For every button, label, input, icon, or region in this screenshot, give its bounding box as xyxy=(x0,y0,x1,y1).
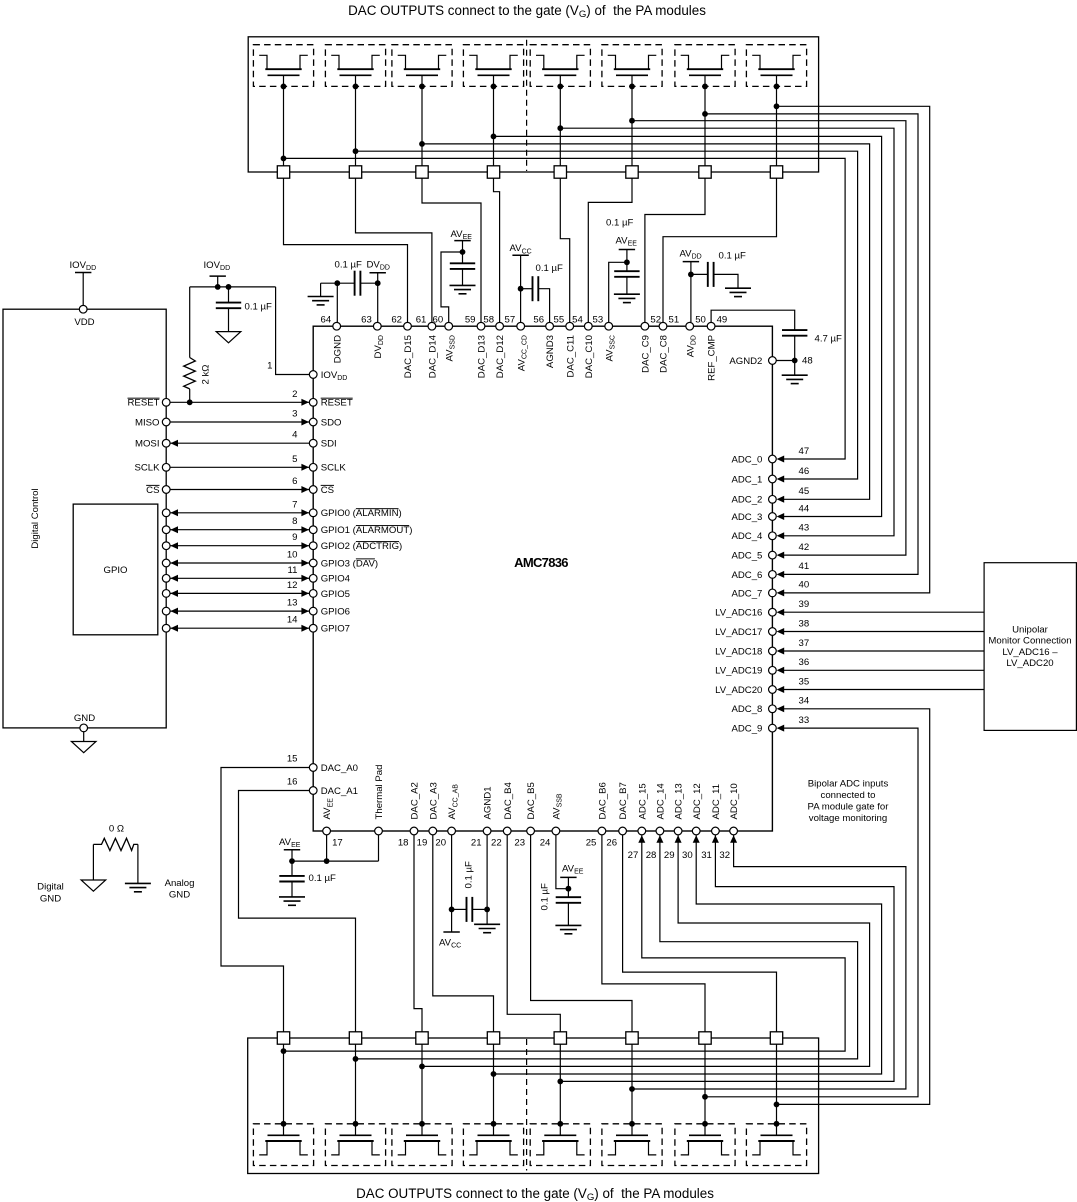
bottom assembly divider dashed xyxy=(526,1039,528,1171)
svg-text:25: 25 xyxy=(586,838,597,849)
terminal square T1 (top) xyxy=(277,166,289,178)
svg-text:ADC_1: ADC_1 xyxy=(731,474,762,485)
junction B8 monitor tap xyxy=(774,1102,780,1108)
junction AVEE pin24 xyxy=(566,886,572,892)
junction at M3 box edge xyxy=(419,84,425,90)
svg-text:29: 29 xyxy=(664,850,675,861)
wire terminal B3 to gate xyxy=(421,1044,423,1135)
svg-text:LV_ADC19: LV_ADC19 xyxy=(715,666,762,677)
wire DAC_D13 pin to terminal T3 xyxy=(422,178,481,322)
svg-text:9: 9 xyxy=(292,532,297,543)
resistor R1 2k xyxy=(184,358,196,389)
pin 57 AV (top edge) xyxy=(517,322,525,330)
svg-text:ADC_2: ADC_2 xyxy=(731,495,762,506)
pin 16 DAC_A1 (left edge) xyxy=(309,787,317,795)
junction at M2 box edge xyxy=(353,84,359,90)
wire DAC_A0 pin15 to terminal B1 xyxy=(221,768,309,1032)
Unipolar Monitor Connection box xyxy=(984,563,1076,731)
wire M6 gate monitor to ADC_5 xyxy=(632,121,906,555)
svg-text:ADC_12: ADC_12 xyxy=(692,783,703,819)
pin 32 ADC_10 (bottom edge) xyxy=(730,827,738,835)
wire DAC_A1 pin16 to terminal B2 xyxy=(239,791,356,1032)
svg-text:54: 54 xyxy=(572,314,583,325)
capacitor C8 0.1uF (AVEE) xyxy=(279,875,304,877)
wire gate M3 to terminal xyxy=(421,75,423,166)
svg-text:2: 2 xyxy=(292,389,297,400)
capacitor C3 0.1uF (AVCC-AGND3) xyxy=(521,288,533,290)
svg-text:CS: CS xyxy=(321,485,334,496)
pin 58 DAC_D12 (top edge) xyxy=(496,322,504,330)
svg-text:19: 19 xyxy=(417,838,428,849)
svg-text:DAC_B7: DAC_B7 xyxy=(618,782,629,819)
wire DAC_C11 pin to terminal T5 xyxy=(560,178,569,322)
pin 21 AGND1 (bottom edge) xyxy=(483,827,491,835)
transistor Q5 (top) xyxy=(536,55,544,69)
PA module M2 (bottom) dashed box xyxy=(325,1124,385,1166)
svg-text:ADC_5: ADC_5 xyxy=(731,551,762,562)
junction M4 monitor tap xyxy=(491,134,497,140)
terminal square B1 (bottom) xyxy=(277,1032,289,1044)
transistor Q9 (bottom) xyxy=(268,1134,300,1136)
transistor Q2 (top) xyxy=(331,55,339,69)
svg-text:LV_ADC18: LV_ADC18 xyxy=(715,646,762,657)
terminal GPIO1 xyxy=(162,526,170,534)
ground C8 xyxy=(279,896,305,898)
pin 39 LV_ADC16 (right edge) xyxy=(769,608,777,616)
svg-text:GND: GND xyxy=(74,713,95,724)
svg-text:AMC7836: AMC7836 xyxy=(514,555,568,570)
wire M7 gate monitor to ADC_6 xyxy=(705,114,918,575)
PA module M3 (top) dashed box xyxy=(392,45,452,87)
wire M4 gate monitor to ADC_3 xyxy=(494,136,882,516)
terminal GPIO2 xyxy=(162,542,170,550)
wire terminal B6 to gate xyxy=(631,1044,633,1135)
svg-text:SCLK: SCLK xyxy=(134,463,160,474)
junction rail-left xyxy=(215,284,221,290)
capacitor C4 0.1uF (AVEE pin53) xyxy=(614,270,639,272)
wire ADC pin 27 monitor to M1 (bottom) xyxy=(284,835,846,1051)
transistor Q7 (top) xyxy=(681,55,689,69)
terminal RESET xyxy=(162,398,170,406)
svg-text:55: 55 xyxy=(554,314,565,325)
svg-text:ADC_13: ADC_13 xyxy=(674,783,685,819)
svg-text:LV_ADC16: LV_ADC16 xyxy=(715,608,762,619)
pin 61 DAC_D14 (top edge) xyxy=(428,322,436,330)
svg-text:RESET: RESET xyxy=(128,398,160,409)
wire MOSI xyxy=(170,442,309,444)
pin 5 SCLK (left edge) xyxy=(309,463,317,471)
svg-text:13: 13 xyxy=(287,598,298,609)
svg-text:DAC OUTPUTS connect to the gat: DAC OUTPUTS connect to the gate (VG) of … xyxy=(348,3,706,20)
svg-text:Thermal Pad: Thermal Pad xyxy=(374,765,385,820)
wire terminal B5 to gate xyxy=(559,1044,561,1135)
pin 52 DAC_C9 (top edge) xyxy=(641,322,649,330)
svg-text:3: 3 xyxy=(292,409,297,420)
transistor Q14 (bottom) xyxy=(616,1134,648,1136)
ground AGND2 xyxy=(782,374,808,376)
junction M2 monitor tap xyxy=(353,148,359,154)
pin 17 AV (bottom edge) xyxy=(323,827,331,835)
svg-text:LV_ADC20: LV_ADC20 xyxy=(715,685,762,696)
wire DAC_D14 pin to terminal T2 xyxy=(356,178,432,322)
pin 24 AV (bottom edge) xyxy=(552,827,560,835)
junction B6 box edge xyxy=(629,1121,635,1127)
pin 20 AV (bottom edge) xyxy=(448,827,456,835)
svg-text:30: 30 xyxy=(682,850,693,861)
pin 10 GPIO3 ( (left edge) xyxy=(309,559,317,567)
junction M1 monitor tap xyxy=(281,156,287,162)
terminal square T2 (top) xyxy=(349,166,361,178)
svg-text:39: 39 xyxy=(799,599,810,610)
terminal square B5 (bottom) xyxy=(554,1032,566,1044)
pin 46 ADC_1 (right edge) xyxy=(769,475,777,483)
pin 25 DAC_B6 (bottom edge) xyxy=(598,827,606,835)
terminal square T7 (top) xyxy=(699,166,711,178)
pin 36 LV_ADC19 (right edge) xyxy=(769,666,777,674)
wire R2 left lead xyxy=(92,844,94,880)
junction B7 box edge xyxy=(702,1121,708,1127)
svg-text:DAC_C9: DAC_C9 xyxy=(641,335,652,373)
pin 23 DAC_B5 (bottom edge) xyxy=(527,827,535,835)
wire gate M8 to terminal xyxy=(776,75,778,166)
wire terminal B1 to gate xyxy=(283,1044,285,1135)
pin 33 ADC_9 (right edge) xyxy=(769,724,777,732)
wire DAC_C8 pin to terminal T8 xyxy=(663,178,777,322)
svg-text:DAC_D13: DAC_D13 xyxy=(477,335,488,378)
wire SCLK xyxy=(170,466,309,468)
ground C10 xyxy=(555,924,581,926)
capacitor C9 0.1uF (AVCC_AB-AGND1) xyxy=(452,908,467,910)
svg-text:11: 11 xyxy=(288,565,298,576)
wire LV_ADC18 from monitor box xyxy=(779,650,985,652)
junction B5 monitor tap xyxy=(557,1079,563,1085)
wire gate M7 to terminal xyxy=(704,75,706,166)
svg-text:ADC_8: ADC_8 xyxy=(731,704,762,715)
wire DGND pin 64 to ground rail xyxy=(336,283,338,322)
svg-text:DAC_B6: DAC_B6 xyxy=(598,782,609,819)
transistor Q16 (bottom) xyxy=(761,1134,793,1136)
capacitor C10 0.1uF (AVEE bottom) xyxy=(556,896,581,898)
wire GPIO7 bidirectional xyxy=(170,627,309,629)
terminal square B6 (bottom) xyxy=(626,1032,638,1044)
junction AVEE rail xyxy=(460,249,466,255)
junction AVEE-pin17 xyxy=(324,858,330,864)
transistor Q1 (top) xyxy=(259,55,267,69)
svg-text:Digital Control: Digital Control xyxy=(30,488,41,548)
junction B2 box edge xyxy=(353,1121,359,1127)
svg-text:PA module gate for: PA module gate for xyxy=(808,802,890,813)
wire IOVDD rail xyxy=(190,286,276,288)
wire ADC pin 30 monitor to M4 (bottom) xyxy=(494,835,882,1074)
junction B4 box edge xyxy=(491,1121,497,1127)
PA module M5 (top) dashed box xyxy=(530,45,590,87)
transistor Q3 (top) xyxy=(398,55,406,69)
junction B1 box edge xyxy=(281,1121,287,1127)
PA module M8 (top) dashed box xyxy=(746,45,806,87)
wire DAC_C10 pin to terminal T6 xyxy=(588,178,632,322)
IC U1 AMC7836 body xyxy=(313,326,772,831)
svg-text:4: 4 xyxy=(292,430,298,441)
svg-text:GPIO1 (ALARMOUT): GPIO1 (ALARMOUT) xyxy=(321,525,413,536)
wire GPIO3 bidirectional xyxy=(170,562,309,564)
svg-text:0.1 µF: 0.1 µF xyxy=(335,259,363,270)
terminal square B8 (bottom) xyxy=(770,1032,782,1044)
svg-text:18: 18 xyxy=(398,838,409,849)
transistor Q11 (bottom) xyxy=(406,1134,438,1136)
PA module M1 (bottom) dashed box xyxy=(253,1124,313,1166)
terminal square T8 (top) xyxy=(770,166,782,178)
wire gate M6 to terminal xyxy=(631,75,633,166)
wire GPIO6 bidirectional xyxy=(170,610,309,612)
ground C4 xyxy=(614,293,640,295)
wire terminal B2 to gate xyxy=(355,1044,357,1135)
svg-text:22: 22 xyxy=(491,838,502,849)
wire pin17 to AVEE rail xyxy=(326,835,328,861)
PA module M5 (bottom) dashed box xyxy=(530,1124,590,1166)
PA module M8 (bottom) dashed box xyxy=(746,1124,806,1166)
svg-text:SDI: SDI xyxy=(321,439,337,450)
svg-text:GPIO3 (DAV): GPIO3 (DAV) xyxy=(321,558,378,569)
svg-text:MOSI: MOSI xyxy=(135,439,160,450)
junction DGND cap xyxy=(334,280,340,286)
svg-text:48: 48 xyxy=(802,355,813,366)
pin 28 ADC_14 (bottom edge) xyxy=(656,827,664,835)
wire pin21 AGND1 to ground xyxy=(486,835,488,924)
power AVCC (bottom, inverted) xyxy=(443,931,459,933)
wire M2 gate monitor to ADC_1 xyxy=(356,151,858,479)
wire LV_ADC17 from monitor box xyxy=(779,631,985,633)
terminal GND xyxy=(80,724,88,732)
svg-text:44: 44 xyxy=(799,503,810,514)
junction M6 monitor tap xyxy=(629,118,635,124)
svg-text:62: 62 xyxy=(391,314,402,325)
svg-text:VDD: VDD xyxy=(74,317,94,328)
svg-text:DAC_B5: DAC_B5 xyxy=(526,782,537,819)
svg-text:20: 20 xyxy=(435,838,446,849)
pin 11 GPIO4 (left edge) xyxy=(309,574,317,582)
svg-text:7: 7 xyxy=(292,499,297,510)
top PA assembly enclosure xyxy=(248,37,818,172)
transistor Q8 (top) xyxy=(752,55,760,69)
junction rail-right xyxy=(226,284,232,290)
svg-text:DAC_A0: DAC_A0 xyxy=(321,763,358,774)
svg-text:33: 33 xyxy=(799,715,810,726)
terminal GPIO5 xyxy=(162,590,170,598)
pin 54 DAC_C10 (top edge) xyxy=(584,322,592,330)
pin 7 GPIO0 ( (left edge) xyxy=(309,509,317,517)
junction B7 monitor tap xyxy=(702,1094,708,1100)
pin 63 DV (top edge) xyxy=(373,322,381,330)
svg-text:61: 61 xyxy=(416,314,427,325)
wire GPIO1 bidirectional xyxy=(170,529,309,531)
svg-text:DAC_C11: DAC_C11 xyxy=(565,335,576,377)
ground DGND xyxy=(308,296,334,298)
power DVDD xyxy=(370,272,386,274)
wire DAC_B6 to terminal B7 xyxy=(602,835,705,1032)
pin 19 DAC_A3 (bottom edge) xyxy=(429,827,437,835)
junction AVEE-cap xyxy=(289,858,295,864)
svg-text:ADC_11: ADC_11 xyxy=(711,784,722,820)
PA module M6 (top) dashed box xyxy=(602,45,662,87)
pin 6 (left edge) xyxy=(309,486,317,494)
terminal GPIO3 xyxy=(162,559,170,567)
svg-text:DAC_C8: DAC_C8 xyxy=(659,335,670,373)
junction at M5 box edge xyxy=(557,84,563,90)
svg-text:37: 37 xyxy=(799,638,810,649)
pin 22 DAC_B4 (bottom edge) xyxy=(503,827,511,835)
svg-text:GPIO2 (ADCTRIG): GPIO2 (ADCTRIG) xyxy=(321,541,403,552)
svg-text:43: 43 xyxy=(799,523,810,534)
junction AVEE pin53 xyxy=(624,259,630,265)
svg-text:38: 38 xyxy=(799,618,810,629)
svg-text:ADC_14: ADC_14 xyxy=(656,783,667,820)
svg-text:16: 16 xyxy=(287,776,298,787)
svg-text:DAC_D15: DAC_D15 xyxy=(403,335,414,378)
svg-text:voltage monitoring: voltage monitoring xyxy=(809,813,887,824)
svg-text:GPIO0 (ALARMIN): GPIO0 (ALARMIN) xyxy=(321,508,402,519)
terminal square T5 (top) xyxy=(554,166,566,178)
Digital Control box xyxy=(3,309,166,728)
terminal GPIO4 xyxy=(162,574,170,582)
svg-text:34: 34 xyxy=(799,696,810,707)
terminal square B3 (bottom) xyxy=(416,1032,428,1044)
wire gate M4 to terminal xyxy=(493,75,495,166)
svg-text:0.1 µF: 0.1 µF xyxy=(540,883,551,911)
svg-text:60: 60 xyxy=(433,314,444,325)
PA module M1 (top) dashed box xyxy=(253,45,313,87)
svg-text:Bipolar ADC inputs: Bipolar ADC inputs xyxy=(808,779,889,790)
svg-text:63: 63 xyxy=(361,314,372,325)
svg-text:REF_CMP: REF_CMP xyxy=(707,335,718,381)
wire DAC_B4 to terminal B5 xyxy=(507,835,560,1032)
pin 50 AV (top edge) xyxy=(686,322,694,330)
junction at M7 box edge xyxy=(702,84,708,90)
pin 26 DAC_B7 (bottom edge) xyxy=(619,827,627,835)
svg-text:ADC_15: ADC_15 xyxy=(637,783,648,819)
PA module M3 (bottom) dashed box xyxy=(392,1124,452,1166)
capacitor C6 4.7uF (REF_CMP) xyxy=(782,329,807,331)
ground C7 triangle xyxy=(216,332,241,343)
svg-text:0.1 µF: 0.1 µF xyxy=(309,873,337,884)
junction DVDD xyxy=(375,280,381,286)
svg-text:DAC_A3: DAC_A3 xyxy=(428,782,439,819)
wire R1 to RESET net xyxy=(189,389,191,402)
junction B1 monitor tap xyxy=(281,1048,287,1054)
wire GPIO2 bidirectional xyxy=(170,545,309,547)
svg-text:GPIO5: GPIO5 xyxy=(321,589,350,600)
svg-text:40: 40 xyxy=(799,580,810,591)
transistor Q6 (top) xyxy=(608,55,616,69)
pin 59 DAC_D13 (top edge) xyxy=(477,322,485,330)
wire gate M2 to terminal xyxy=(355,75,357,166)
svg-text:31: 31 xyxy=(701,850,712,861)
wire DAC_D12 pin to terminal T4 xyxy=(494,178,500,322)
terminal VDD xyxy=(79,305,87,313)
svg-text:DAC_D14: DAC_D14 xyxy=(428,334,439,378)
wire GPIO4 bidirectional xyxy=(170,577,309,579)
junction M3 monitor tap xyxy=(419,141,425,147)
svg-text:6: 6 xyxy=(292,476,297,487)
wire M3 gate monitor to ADC_2 xyxy=(422,144,870,499)
junction at M6 box edge xyxy=(629,84,635,90)
wire DAC_B7 to terminal B8 xyxy=(623,835,777,1032)
wire ADC pin 31 monitor to M5 (bottom) xyxy=(560,835,894,1081)
svg-text:50: 50 xyxy=(695,314,706,325)
junction AGND1 xyxy=(484,907,490,913)
wire AVEE rail to pin 60 AVSSD xyxy=(441,252,463,322)
junction B3 monitor tap xyxy=(419,1064,425,1070)
pin 14 GPIO7 (left edge) xyxy=(309,624,317,632)
junction AVDD rail xyxy=(688,272,694,278)
wire M1 gate monitor to ADC_0 xyxy=(284,158,846,459)
svg-text:DGND: DGND xyxy=(332,335,343,363)
svg-text:0.1 µF: 0.1 µF xyxy=(245,302,273,313)
pin 13 GPIO6 (left edge) xyxy=(309,607,317,615)
terminal MISO xyxy=(162,418,170,426)
svg-text:SDO: SDO xyxy=(321,417,342,428)
transistor Q15 (bottom) xyxy=(689,1134,721,1136)
svg-text:2 kΩ: 2 kΩ xyxy=(201,365,212,385)
pin 1 IOV (left edge) xyxy=(309,371,317,379)
pin 29 ADC_13 (bottom edge) xyxy=(674,827,682,835)
wire gate M5 to terminal xyxy=(559,75,561,166)
pin 51 DAC_C8 (top edge) xyxy=(659,322,667,330)
svg-text:Monitor Connection: Monitor Connection xyxy=(988,636,1071,647)
PA module M2 (top) dashed box xyxy=(325,45,385,87)
wire rail to resistor R1 xyxy=(189,287,191,358)
svg-text:GND: GND xyxy=(40,894,61,905)
svg-text:ADC_7: ADC_7 xyxy=(731,588,762,599)
transistor Q4 (top) xyxy=(469,55,477,69)
svg-text:0.1 µF: 0.1 µF xyxy=(464,861,475,889)
svg-text:21: 21 xyxy=(471,838,482,849)
PA module M7 (bottom) dashed box xyxy=(675,1124,735,1166)
pin 62 DAC_D15 (top edge) xyxy=(404,322,412,330)
svg-text:DAC_C10: DAC_C10 xyxy=(584,335,595,378)
capacitor C2 0.1uF (AVEE) xyxy=(450,262,475,264)
svg-text:46: 46 xyxy=(799,466,810,477)
junction B8 box edge xyxy=(774,1121,780,1127)
wire DAC_A2 to terminal B3 xyxy=(414,835,422,1032)
svg-text:0 Ω: 0 Ω xyxy=(109,824,124,835)
wire DAC_C9 pin to terminal T7 xyxy=(645,178,705,322)
svg-text:28: 28 xyxy=(646,850,657,861)
svg-text:0.1 µF: 0.1 µF xyxy=(606,218,634,229)
junction B3 box edge xyxy=(419,1121,425,1127)
ground Analog GND bars xyxy=(125,882,151,884)
pin 43 ADC_4 (right edge) xyxy=(769,532,777,540)
pin 56 AGND3 (top edge) xyxy=(546,322,554,330)
svg-text:RESET: RESET xyxy=(321,398,353,409)
terminal square B4 (bottom) xyxy=(487,1032,499,1044)
pin TP Thermal Pad (bottom edge) xyxy=(375,827,383,835)
pin 44 ADC_3 (right edge) xyxy=(769,513,777,521)
svg-text:GPIO7: GPIO7 xyxy=(321,624,350,635)
pin 30 ADC_12 (bottom edge) xyxy=(692,827,700,835)
junction M7 monitor tap xyxy=(702,111,708,117)
svg-text:14: 14 xyxy=(287,615,298,626)
PA module M4 (bottom) dashed box xyxy=(463,1124,523,1166)
svg-text:Digital: Digital xyxy=(37,882,64,893)
bottom PA assembly enclosure xyxy=(248,1038,819,1174)
junction B2 monitor tap xyxy=(353,1056,359,1062)
pin 3 SDO (left edge) xyxy=(309,418,317,426)
PA module M4 (top) dashed box xyxy=(463,45,523,87)
pin 34 ADC_8 (right edge) xyxy=(769,705,777,713)
wire ADC pin 32 monitor to M6 (bottom) xyxy=(632,835,906,1089)
svg-text:DAC_D12: DAC_D12 xyxy=(495,335,506,378)
wire IOVDD rail to pin 1 xyxy=(276,287,310,375)
